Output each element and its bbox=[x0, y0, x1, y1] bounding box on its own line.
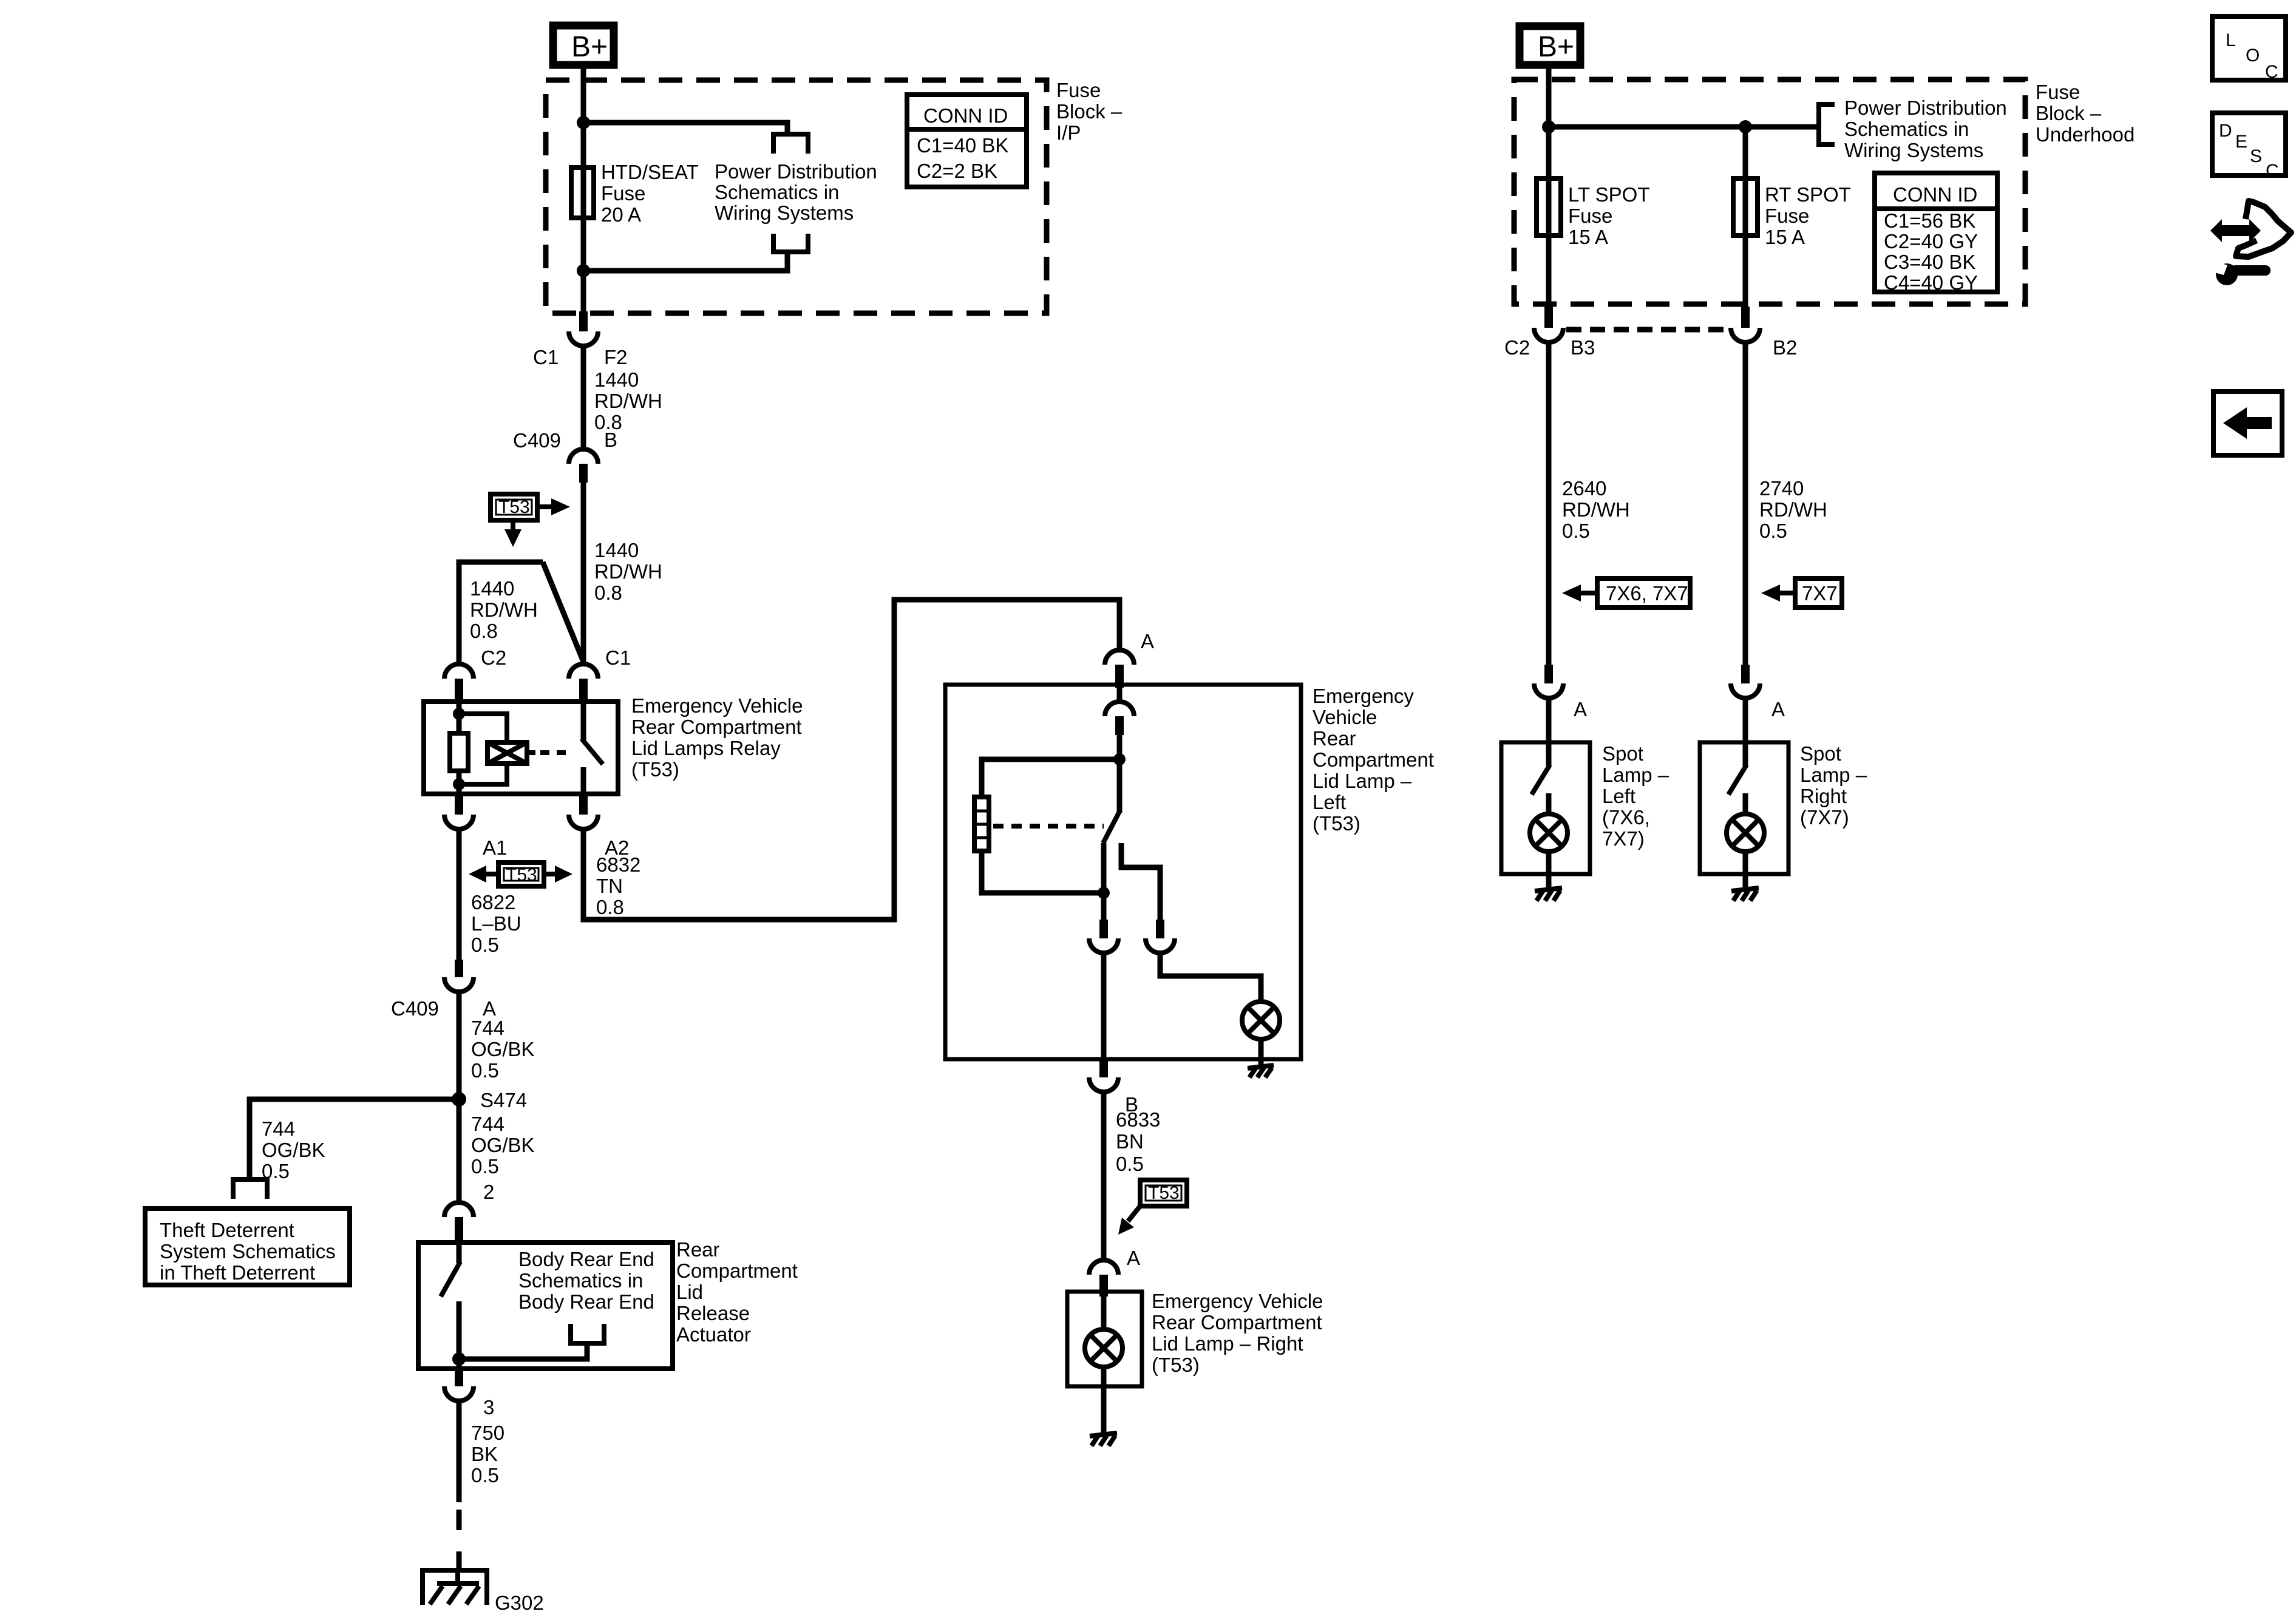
svg-text:Schematics in: Schematics in bbox=[1844, 118, 1969, 140]
hand and wrench icon bbox=[2210, 201, 2291, 285]
connector A1 cup bbox=[444, 815, 474, 829]
svg-text:C2: C2 bbox=[481, 646, 506, 669]
7X6 7X7 reference box bbox=[1597, 578, 1690, 608]
svg-text:Body Rear End: Body Rear End bbox=[518, 1290, 654, 1313]
label 6822 L-BU 0.5 bbox=[471, 891, 521, 956]
dashed link lamp-left bbox=[993, 824, 1104, 829]
connector A2 cup bbox=[569, 815, 598, 829]
wire LT fuse bbox=[1546, 127, 1552, 307]
label Spot Lamp Left bbox=[1602, 742, 1669, 850]
switch blade lamp-left bbox=[1103, 812, 1119, 843]
lamp left box (Emergency Vehicle Rear Compartment Lid Lamp - Left) bbox=[945, 685, 1301, 1059]
svg-text:D: D bbox=[2219, 121, 2232, 141]
svg-text:Fuse: Fuse bbox=[1568, 205, 1612, 227]
svg-text:Release: Release bbox=[676, 1302, 750, 1324]
label relay title bbox=[631, 694, 803, 781]
svg-text:0.8: 0.8 bbox=[470, 620, 498, 642]
label RT SPOT Fuse 15 A bbox=[1765, 183, 1851, 248]
svg-text:G302: G302 bbox=[495, 1592, 544, 1614]
card resistor (lamp module) bbox=[974, 797, 989, 851]
svg-text:744: 744 bbox=[262, 1117, 295, 1140]
svg-text:OG/BK: OG/BK bbox=[471, 1038, 535, 1060]
svg-text:Emergency Vehicle: Emergency Vehicle bbox=[1152, 1290, 1323, 1312]
svg-text:B: B bbox=[604, 429, 617, 451]
label 1440 RD/WH 0.8 (main right) bbox=[594, 539, 662, 604]
svg-text:C409: C409 bbox=[513, 429, 561, 452]
svg-text:Theft Deterrent: Theft Deterrent bbox=[160, 1219, 294, 1241]
svg-text:1440: 1440 bbox=[470, 577, 514, 600]
svg-text:0.5: 0.5 bbox=[1562, 520, 1590, 542]
connector relay C2 dome bbox=[444, 664, 474, 679]
connector C409 B pin bbox=[579, 464, 588, 483]
svg-text:(T53): (T53) bbox=[1152, 1354, 1200, 1376]
wire branch to power distribution (top) bbox=[583, 123, 787, 134]
svg-text:Left: Left bbox=[1313, 791, 1346, 813]
svg-text:O: O bbox=[2246, 46, 2260, 66]
ground lamp-left bbox=[1248, 1065, 1274, 1077]
svg-text:I/P: I/P bbox=[1056, 121, 1081, 144]
svg-text:C409: C409 bbox=[391, 997, 439, 1020]
svg-text:RD/WH: RD/WH bbox=[594, 560, 662, 583]
7X6 arrow left bbox=[1580, 591, 1597, 595]
LOC icon box bbox=[2212, 16, 2286, 82]
svg-text:7X7): 7X7) bbox=[1602, 827, 1645, 850]
ground spot-right bbox=[1731, 888, 1759, 901]
svg-text:6832: 6832 bbox=[596, 853, 640, 876]
wire spot-left to ground bbox=[1546, 852, 1552, 887]
power distribution bracket bottom bbox=[773, 234, 808, 252]
spot-right switch stub bbox=[1743, 793, 1748, 815]
node relay bottom bbox=[453, 778, 465, 790]
CONN ID table left bbox=[907, 95, 1027, 187]
svg-text:Spot: Spot bbox=[1602, 742, 1643, 765]
svg-text:B3: B3 bbox=[1571, 336, 1595, 359]
svg-text:CONN ID: CONN ID bbox=[923, 104, 1008, 127]
svg-text:750: 750 bbox=[471, 1422, 504, 1444]
wire B+ to fuse block bbox=[581, 69, 586, 123]
svg-text:Schematics in: Schematics in bbox=[518, 1269, 643, 1292]
label 744 OG/BK 0.5 (below splice) bbox=[471, 1113, 535, 1178]
connector B2 pin bbox=[1741, 307, 1750, 328]
svg-text:0.5: 0.5 bbox=[471, 1059, 499, 1082]
svg-text:T53: T53 bbox=[1148, 1183, 1180, 1203]
label LT SPOT Fuse 15 A bbox=[1568, 183, 1649, 248]
label HTD/SEAT Fuse 20 A bbox=[601, 161, 699, 226]
label lamp right title bbox=[1152, 1290, 1323, 1376]
svg-text:C4=40 GY: C4=40 GY bbox=[1884, 271, 1978, 294]
svg-text:Spot: Spot bbox=[1800, 742, 1841, 765]
wire right spot lamp bbox=[1743, 342, 1748, 665]
svg-text:(7X7): (7X7) bbox=[1800, 806, 1849, 829]
CONN ID table right bbox=[1875, 173, 1997, 294]
wire inside top bbox=[1117, 688, 1123, 703]
wire branch to theft deterrent bbox=[250, 1099, 459, 1177]
wire through fuse bbox=[581, 123, 586, 271]
svg-text:6833: 6833 bbox=[1116, 1108, 1160, 1131]
T53 reference box (lamp right) bbox=[1140, 1180, 1187, 1206]
connector spot-left A cup bbox=[1534, 683, 1563, 698]
svg-text:F2: F2 bbox=[604, 346, 628, 368]
spot lamp left box bbox=[1501, 742, 1590, 874]
lamp bulb spot-right bbox=[1727, 814, 1764, 852]
connector pin2 pin bbox=[455, 1217, 463, 1245]
label Fuse Block Underhood bbox=[2036, 81, 2135, 146]
wire RT fuse bbox=[1743, 127, 1748, 307]
wire power distribution return (bottom) bbox=[583, 254, 787, 271]
svg-text:B2: B2 bbox=[1773, 336, 1797, 359]
svg-text:Rear Compartment: Rear Compartment bbox=[631, 716, 802, 738]
label 6832 TN 0.8 bbox=[596, 853, 640, 918]
node junction bottom bbox=[577, 264, 590, 277]
svg-text:LT SPOT: LT SPOT bbox=[1568, 183, 1649, 206]
wire actuator internal branch bbox=[459, 1346, 587, 1359]
lamp bulb right bbox=[1085, 1329, 1123, 1367]
svg-text:B+: B+ bbox=[571, 31, 608, 63]
svg-text:(T53): (T53) bbox=[1313, 812, 1360, 835]
svg-text:7X6, 7X7: 7X6, 7X7 bbox=[1606, 582, 1688, 605]
splice S474 bbox=[452, 1092, 466, 1107]
connector lamp-right A pin bbox=[1099, 1275, 1108, 1297]
switch NO contact hook bbox=[1121, 843, 1160, 920]
connector C409 A pin bbox=[455, 960, 463, 977]
svg-text:Fuse: Fuse bbox=[2036, 81, 2080, 103]
label 1440 RD/WH 0.8 (upper) bbox=[594, 368, 662, 433]
node lamp-left top bbox=[1113, 753, 1126, 765]
label Spot Lamp Right bbox=[1800, 742, 1867, 829]
wire fuse block exit bbox=[581, 271, 586, 315]
T53 double arrow reference box bbox=[498, 863, 544, 886]
connector out pin (right) bbox=[1156, 920, 1164, 938]
svg-text:BK: BK bbox=[471, 1443, 498, 1465]
svg-text:C1=40 BK: C1=40 BK bbox=[917, 134, 1008, 157]
wire blade to node bbox=[1101, 843, 1107, 920]
label 750 BK 0.5 bbox=[471, 1422, 504, 1486]
wire to spot lamp right box bbox=[1743, 698, 1748, 742]
svg-text:in Theft Deterrent: in Theft Deterrent bbox=[160, 1261, 315, 1284]
wire spot-right to ground bbox=[1743, 852, 1748, 887]
connector relay C1 pin bbox=[579, 679, 588, 702]
relay internal wire left bbox=[457, 702, 462, 796]
7X7 reference box bbox=[1795, 578, 1842, 608]
T53 reference box bbox=[491, 494, 537, 520]
node relay top bbox=[453, 708, 465, 720]
svg-text:A: A bbox=[1141, 630, 1154, 653]
relay switch blade bbox=[582, 739, 603, 764]
connector C2/B3 pin bbox=[1544, 307, 1553, 328]
svg-text:Right: Right bbox=[1800, 785, 1847, 807]
connector lamp-right A dome bbox=[1089, 1260, 1118, 1275]
svg-text:RD/WH: RD/WH bbox=[1562, 498, 1630, 521]
connector A2 pin bbox=[579, 796, 588, 815]
wire C409A to S474 bbox=[457, 992, 462, 1099]
svg-text:RD/WH: RD/WH bbox=[1759, 498, 1827, 521]
lamp bulb spot-left bbox=[1530, 814, 1567, 852]
svg-text:Lamp –: Lamp – bbox=[1800, 764, 1867, 786]
svg-text:S474: S474 bbox=[480, 1089, 527, 1111]
actuator box (Rear Compartment Lid Release Actuator) bbox=[418, 1242, 673, 1369]
connector 3 cup bbox=[444, 1386, 474, 1401]
svg-text:A: A bbox=[1771, 698, 1785, 720]
label Body Rear End Schematics in Body Rear End bbox=[518, 1248, 654, 1313]
wire to junction bbox=[1117, 735, 1123, 813]
node actuator bbox=[452, 1352, 466, 1366]
wire to lamp bulb left bbox=[1160, 953, 1261, 1001]
svg-text:0.5: 0.5 bbox=[471, 934, 499, 956]
spot-left switch wire bbox=[1546, 742, 1552, 766]
actuator switch wire bottom bbox=[457, 1301, 462, 1369]
connector out cup (left) bbox=[1089, 938, 1118, 953]
svg-text:T53: T53 bbox=[498, 497, 530, 517]
connector B2 cup bbox=[1731, 328, 1760, 342]
svg-text:C: C bbox=[2265, 62, 2278, 82]
svg-text:Lamp –: Lamp – bbox=[1602, 764, 1669, 786]
lamp right box (Emergency Vehicle Rear Compartment Lid Lamp - Right) bbox=[1067, 1292, 1142, 1386]
connector relay C2 pin bbox=[455, 679, 463, 702]
B+ terminal right bbox=[1520, 26, 1580, 65]
svg-text:Lid: Lid bbox=[676, 1281, 703, 1303]
power distribution bracket right bbox=[1819, 104, 1835, 144]
T53 arrow left bbox=[485, 872, 497, 876]
svg-text:Emergency: Emergency bbox=[1313, 685, 1414, 707]
svg-text:2: 2 bbox=[483, 1181, 494, 1203]
connector spot-right A cup bbox=[1731, 683, 1760, 698]
connector B cup bbox=[1089, 1077, 1118, 1092]
label 744 OG/BK 0.5 (branch) bbox=[262, 1117, 325, 1182]
svg-text:(T53): (T53) bbox=[631, 758, 679, 781]
svg-text:Fuse: Fuse bbox=[1765, 205, 1809, 227]
wire A1 down bbox=[457, 829, 462, 960]
coil relay (box with X) bbox=[487, 742, 527, 764]
svg-text:3: 3 bbox=[483, 1396, 494, 1419]
wire C409 to relay C1 bbox=[581, 483, 586, 665]
wire lamp to ground bbox=[1258, 1039, 1264, 1065]
ground G302 bbox=[423, 1570, 487, 1605]
wire coil top bbox=[459, 714, 507, 743]
svg-text:2740: 2740 bbox=[1759, 477, 1804, 500]
label Power Distribution Schematics in Wiring Systems (right) bbox=[1844, 97, 2007, 161]
svg-text:6822: 6822 bbox=[471, 891, 515, 914]
svg-text:C2=2 BK: C2=2 BK bbox=[917, 160, 997, 182]
T53 arrow right bbox=[545, 872, 556, 876]
theft deterrent reference box bbox=[145, 1209, 350, 1285]
svg-text:Emergency Vehicle: Emergency Vehicle bbox=[631, 694, 803, 717]
svg-text:C2: C2 bbox=[1504, 336, 1530, 359]
spot-right switch wire bbox=[1743, 742, 1748, 766]
power distribution bracket top bbox=[773, 134, 808, 154]
fuse HTD/SEAT F2 bbox=[571, 168, 594, 218]
wire card resistor bottom bbox=[982, 851, 1104, 893]
svg-text:0.8: 0.8 bbox=[594, 581, 622, 604]
wire B+ right down bbox=[1546, 69, 1552, 127]
T53 arrow diagonal bbox=[1128, 1206, 1140, 1221]
svg-text:7X7: 7X7 bbox=[1802, 582, 1838, 605]
svg-text:Wiring Systems: Wiring Systems bbox=[715, 202, 854, 224]
label Rear Compartment Lid Release Actuator bbox=[676, 1238, 798, 1346]
spot lamp right box bbox=[1700, 742, 1788, 874]
svg-text:Block –: Block – bbox=[1056, 100, 1123, 123]
spot-left switch blade bbox=[1532, 765, 1550, 795]
svg-text:Power Distribution: Power Distribution bbox=[1844, 97, 2007, 119]
node lamp-left bottom bbox=[1098, 887, 1110, 899]
svg-text:HTD/SEAT: HTD/SEAT bbox=[601, 161, 699, 183]
wire left spot lamp bbox=[1546, 342, 1552, 665]
svg-text:Lid Lamp – Right: Lid Lamp – Right bbox=[1152, 1332, 1303, 1355]
wire to spot lamp left box bbox=[1546, 698, 1552, 742]
wire bulb to box bottom bbox=[1101, 1367, 1107, 1432]
svg-text:2640: 2640 bbox=[1562, 477, 1606, 500]
wire branch stub to C2 bbox=[459, 562, 543, 665]
svg-text:15 A: 15 A bbox=[1765, 226, 1805, 248]
svg-text:15 A: 15 A bbox=[1568, 226, 1608, 248]
label 2640 RD/WH 0.5 bbox=[1562, 477, 1630, 542]
svg-text:E: E bbox=[2235, 132, 2247, 152]
label lamp left title bbox=[1313, 685, 1434, 835]
svg-text:Rear: Rear bbox=[676, 1238, 720, 1261]
wire to bulb right bbox=[1101, 1297, 1107, 1329]
connector internal pin bbox=[1115, 716, 1124, 735]
connector out cup (right) bbox=[1146, 938, 1175, 953]
connector relay C1 dome bbox=[569, 664, 598, 679]
svg-text:Vehicle: Vehicle bbox=[1313, 706, 1377, 728]
svg-text:0.5: 0.5 bbox=[471, 1464, 499, 1486]
wire branch to card resistor bbox=[982, 759, 1119, 797]
svg-text:Wiring Systems: Wiring Systems bbox=[1844, 139, 1983, 161]
svg-text:T53: T53 bbox=[506, 865, 537, 885]
svg-text:S: S bbox=[2250, 146, 2262, 166]
svg-text:Fuse: Fuse bbox=[1056, 79, 1101, 101]
connector C1/F2 cup bbox=[569, 331, 598, 346]
svg-text:OG/BK: OG/BK bbox=[471, 1134, 535, 1156]
svg-text:C3=40 BK: C3=40 BK bbox=[1884, 251, 1975, 273]
svg-text:744: 744 bbox=[471, 1113, 504, 1135]
wire coil bottom bbox=[459, 763, 507, 784]
fuse block underhood dashed box bbox=[1514, 80, 2025, 304]
lamp bulb left bbox=[1242, 1002, 1280, 1039]
svg-text:Block –: Block – bbox=[2036, 102, 2102, 124]
svg-text:A: A bbox=[1574, 698, 1587, 720]
svg-text:Underhood: Underhood bbox=[2036, 123, 2135, 146]
connector C2/B3 cup bbox=[1534, 328, 1563, 342]
node bus left bbox=[1542, 120, 1555, 134]
relay switch wire bottom bbox=[581, 767, 586, 796]
wire coil to link bbox=[527, 750, 535, 755]
T53 arrow right bbox=[537, 504, 552, 509]
wire to C409 bbox=[581, 346, 586, 447]
connector C1/F2 pin bbox=[579, 311, 588, 331]
svg-text:Body Rear End: Body Rear End bbox=[518, 1248, 654, 1270]
connector B pin bbox=[1099, 1059, 1108, 1077]
connector lamp-left A dome bbox=[1105, 650, 1134, 665]
svg-text:Rear Compartment: Rear Compartment bbox=[1152, 1311, 1322, 1334]
connector spot-left A pin bbox=[1544, 665, 1553, 683]
wire to box bottom bbox=[1101, 953, 1107, 1059]
svg-text:C1: C1 bbox=[533, 346, 559, 368]
T53 arrow down bbox=[511, 520, 515, 531]
connector lamp-left A pin bbox=[1115, 665, 1124, 688]
relay switch wire top bbox=[581, 702, 586, 740]
svg-text:20 A: 20 A bbox=[601, 203, 641, 226]
svg-text:A: A bbox=[1127, 1247, 1140, 1269]
actuator switch wire top bbox=[457, 1242, 462, 1263]
svg-text:Power Distribution: Power Distribution bbox=[715, 160, 877, 183]
connector 3 pin bbox=[455, 1369, 463, 1386]
fuse block I/P dashed box bbox=[546, 80, 1047, 313]
svg-text:Lid Lamp –: Lid Lamp – bbox=[1313, 770, 1412, 792]
connector C409 B dome bbox=[569, 449, 598, 464]
svg-text:B+: B+ bbox=[1538, 31, 1574, 63]
svg-text:0.8: 0.8 bbox=[596, 896, 624, 918]
connector out pin (left) bbox=[1099, 920, 1108, 938]
svg-text:RD/WH: RD/WH bbox=[594, 390, 662, 412]
label 6833 BN 0.5 bbox=[1116, 1108, 1160, 1175]
svg-text:OG/BK: OG/BK bbox=[262, 1139, 325, 1161]
svg-text:C2=40 GY: C2=40 GY bbox=[1884, 230, 1978, 253]
svg-text:Compartment: Compartment bbox=[676, 1259, 798, 1282]
node junction top bbox=[577, 116, 590, 129]
svg-text:L: L bbox=[2226, 30, 2236, 50]
wire to ground solid bbox=[457, 1401, 462, 1502]
svg-text:System Schematics: System Schematics bbox=[160, 1240, 336, 1263]
svg-text:0.5: 0.5 bbox=[262, 1160, 290, 1182]
svg-text:Left: Left bbox=[1602, 785, 1635, 807]
node bus right bbox=[1739, 120, 1752, 134]
label Power Distribution Schematics in Wiring Systems (left) bbox=[715, 160, 877, 224]
svg-text:1440: 1440 bbox=[594, 368, 639, 391]
fuse LT SPOT bbox=[1537, 178, 1561, 236]
connector A1 pin bbox=[455, 796, 463, 815]
theft deterrent bracket bbox=[233, 1179, 267, 1199]
actuator switch blade bbox=[441, 1262, 460, 1297]
svg-text:CONN ID: CONN ID bbox=[1893, 183, 1977, 206]
label 744 OG/BK 0.5 bbox=[471, 1017, 535, 1082]
svg-text:TN: TN bbox=[596, 875, 623, 897]
ground lamp-right bbox=[1090, 1433, 1117, 1446]
svg-text:Fuse: Fuse bbox=[601, 182, 645, 205]
fuse RT SPOT bbox=[1733, 178, 1758, 236]
svg-text:A1: A1 bbox=[483, 836, 507, 859]
svg-text:Schematics in: Schematics in bbox=[715, 181, 839, 203]
connector internal dome bbox=[1105, 702, 1134, 716]
dashed connector line bbox=[1566, 327, 1729, 333]
wire bus to power distribution bbox=[1549, 124, 1819, 130]
wire B to lamp right bbox=[1101, 1092, 1107, 1261]
svg-text:L–BU: L–BU bbox=[471, 912, 521, 935]
svg-text:RT SPOT: RT SPOT bbox=[1765, 183, 1851, 206]
dashed mechanical link bbox=[540, 750, 573, 755]
connector spot-right A pin bbox=[1741, 665, 1750, 683]
wire diagonal branch bbox=[543, 562, 583, 662]
svg-text:C1: C1 bbox=[605, 646, 631, 669]
DESC icon box bbox=[2212, 113, 2286, 181]
svg-text:C1=56 BK: C1=56 BK bbox=[1884, 209, 1975, 232]
resistor relay bbox=[450, 733, 468, 771]
svg-text:744: 744 bbox=[471, 1017, 504, 1039]
spot-right switch blade bbox=[1728, 765, 1747, 795]
wire S474 down bbox=[457, 1099, 462, 1202]
wire to ground dashed bbox=[457, 1510, 462, 1530]
svg-text:1440: 1440 bbox=[594, 539, 639, 561]
ground spot-left bbox=[1535, 888, 1562, 901]
connector C409 A cup bbox=[444, 977, 474, 992]
svg-text:(7X6,: (7X6, bbox=[1602, 806, 1650, 829]
connector pin2 dome bbox=[444, 1202, 474, 1217]
svg-text:0.5: 0.5 bbox=[1759, 520, 1787, 542]
svg-text:RD/WH: RD/WH bbox=[470, 598, 538, 621]
svg-text:Compartment: Compartment bbox=[1313, 748, 1434, 771]
relay K (Emergency Vehicle Rear Compartment Lid Lamps Relay) box bbox=[424, 702, 618, 794]
svg-text:0.5: 0.5 bbox=[471, 1155, 499, 1178]
svg-text:0.5: 0.5 bbox=[1116, 1153, 1144, 1175]
